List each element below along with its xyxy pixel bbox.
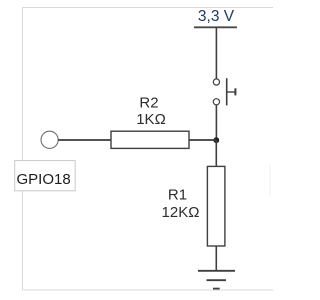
node junction dot: [213, 137, 219, 143]
resistor R1: [207, 166, 225, 246]
svg-text:R2: R2: [139, 95, 158, 112]
wire R1 to ground: [215, 246, 217, 270]
power rail bar 3.3V: [194, 26, 237, 28]
resistor R2: [111, 131, 189, 148]
ground: [198, 271, 235, 289]
svg-text:12KΩ: 12KΩ: [162, 204, 200, 221]
terminal circle GPIO18: [41, 131, 58, 148]
svg-text:1KΩ: 1KΩ: [136, 111, 166, 128]
R1 value label 12KΩ: [162, 204, 200, 221]
wire node to R1: [215, 140, 217, 167]
R1 reference label: [168, 187, 187, 204]
svg-text:GPIO18: GPIO18: [17, 171, 71, 188]
wire button to node: [215, 105, 217, 140]
wire R2 to node: [189, 139, 216, 141]
push button (normally open): [213, 78, 235, 105]
GPIO18 net label box: [15, 161, 75, 191]
R2 reference label: [139, 95, 158, 112]
wire terminal to R2: [58, 139, 111, 141]
R2 value label 1KΩ: [136, 111, 166, 128]
power net label 3,3 V: [198, 8, 235, 25]
svg-text:R1: R1: [168, 187, 187, 204]
svg-text:3,3 V: 3,3 V: [198, 8, 235, 25]
wire power rail to button: [215, 28, 217, 79]
